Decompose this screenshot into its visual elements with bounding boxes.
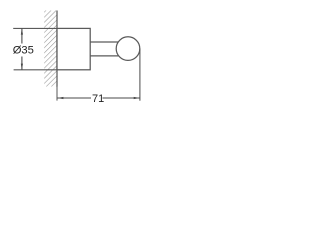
arrow right (71) xyxy=(134,97,140,99)
extension line right (71) xyxy=(139,49,141,101)
svg-text:71: 71 xyxy=(92,93,104,105)
dimension line O35 vertical, upper segment xyxy=(21,28,23,43)
wall hatching xyxy=(44,11,57,87)
arrow up (O35 top) xyxy=(21,28,23,34)
knob circle xyxy=(116,37,140,61)
dimension line 71, right segment xyxy=(103,97,140,99)
extension line below wall (71 left) xyxy=(56,87,58,101)
extension line bottom (O35) xyxy=(14,69,57,71)
arrow left (71) xyxy=(57,97,63,99)
arrow down (O35 bottom) xyxy=(21,64,23,70)
stem top line xyxy=(90,41,122,43)
dimension line 71, left segment xyxy=(57,97,91,99)
dimension line O35 vertical, lower segment xyxy=(21,57,23,70)
extension line top (O35) xyxy=(13,27,57,29)
wall face line xyxy=(56,11,58,87)
stem bottom line xyxy=(90,55,122,57)
svg-text:Ø35: Ø35 xyxy=(13,44,34,56)
rosette flange rectangle xyxy=(57,28,90,69)
